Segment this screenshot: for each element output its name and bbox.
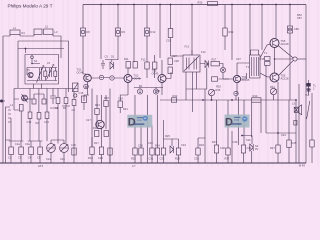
capacitor C19: [118, 101, 122, 108]
svg-text:R35: R35: [216, 85, 221, 89]
svg-text:LS: LS: [292, 102, 295, 106]
svg-text:C36: C36: [194, 157, 199, 161]
svg-text:F12: F12: [141, 58, 146, 62]
wire vertical x225: [224, 5, 226, 51]
capacitor pair above TS1: [101, 60, 105, 69]
TS4 transistor: [233, 75, 240, 82]
svg-text:R11: R11: [124, 57, 129, 61]
resistor R34 on base: [212, 77, 218, 81]
wire vertical x290: [289, 5, 291, 27]
svg-text:4 7: 4 7: [132, 164, 136, 167]
svg-text:C86: C86: [294, 27, 299, 31]
wire vertical x192: [191, 5, 193, 56]
resistor R15: [104, 101, 108, 107]
wires around TS1: [83, 58, 99, 95]
rail y100: [160, 99, 296, 101]
padder capacitor d: [38, 147, 43, 155]
svg-text:AC128: AC128: [281, 77, 289, 81]
tuning coil 1: [37, 65, 45, 82]
electrolytic small circle: [99, 75, 103, 79]
padder capacitor b: [19, 147, 24, 155]
resistor R6: [81, 28, 86, 36]
resistor row1 d: [72, 100, 76, 106]
resistor row2 a: [28, 112, 32, 119]
variable capacitor CV1: [47, 144, 56, 153]
wire vertical x118: [117, 5, 119, 61]
svg-text:C9: C9: [72, 108, 76, 112]
capacitor C35 circle: [220, 67, 225, 72]
svg-text:R14: R14: [93, 126, 98, 130]
wire left drop: [14, 89, 19, 111]
svg-text:R44: R44: [270, 85, 275, 89]
svg-text:OC45: OC45: [152, 72, 159, 76]
junction dot x170: [170, 4, 172, 6]
dial lamp: [307, 83, 311, 86]
svg-text:C12: C12: [27, 120, 32, 124]
detector diode: [205, 61, 209, 68]
svg-text:C38: C38: [220, 146, 225, 150]
svg-text:R6: R6: [87, 30, 91, 34]
svg-text:C32: C32: [148, 141, 153, 145]
padder capacitor c: [29, 147, 34, 155]
svg-text:R47: R47: [270, 146, 275, 150]
svg-text:C19: C19: [118, 97, 123, 101]
svg-text:R35: R35: [216, 88, 221, 92]
electrolytic right bottom: [310, 140, 314, 147]
tone pot: [270, 88, 276, 94]
svg-text:AC128: AC128: [281, 42, 289, 46]
svg-text:C17: C17: [86, 118, 91, 122]
jack circle 1: [137, 89, 142, 94]
wires TS4: [219, 63, 250, 95]
svg-text:C2a: C2a: [15, 142, 20, 146]
TS6 transistor: [270, 73, 279, 82]
svg-text:TL1: TL1: [305, 93, 310, 97]
svg-text:R9: R9: [122, 30, 126, 34]
junction dot x250: [249, 4, 251, 6]
resistor vol b: [139, 148, 143, 155]
meter circle M1: [84, 84, 89, 89]
wire vertical x134: [133, 5, 135, 63]
capacitor C20: [133, 62, 137, 69]
svg-text:R30: R30: [198, 1, 203, 5]
svg-text:R21: R21: [123, 107, 128, 111]
dial cord: [307, 101, 310, 119]
resistor row1 b: [56, 98, 60, 104]
resistor after diode: [211, 62, 220, 66]
svg-text:R45: R45: [260, 57, 265, 61]
svg-text:R24: R24: [155, 144, 160, 148]
resistor row2 c: [45, 112, 49, 119]
svg-text:C27: C27: [172, 54, 177, 58]
junction dot x290: [289, 4, 291, 6]
svg-text:C37: C37: [236, 57, 241, 61]
TS5 transistor: [270, 39, 279, 48]
svg-text:D1: D1: [111, 55, 115, 59]
volume pot: [208, 89, 214, 95]
svg-text:F13: F13: [185, 45, 190, 49]
resistor af f: [241, 145, 245, 153]
battery diode bottom: [250, 144, 253, 151]
svg-text:C31: C31: [149, 157, 154, 161]
resistor R33: [223, 28, 227, 36]
svg-text:D: D: [225, 117, 233, 129]
wire vertical x232: [231, 5, 233, 61]
junction dot x262: [261, 4, 263, 6]
svg-text:R31: R31: [212, 140, 217, 144]
junction dot x118: [117, 4, 119, 6]
svg-text:C1a: C1a: [46, 157, 51, 161]
svg-text:AC125: AC125: [242, 78, 250, 82]
wire vertical x83: [82, 5, 84, 59]
resistor R11: [126, 62, 130, 69]
headphone jack rail: [134, 87, 163, 89]
wires mid-left verticals: [30, 89, 74, 113]
resistor R9: [116, 28, 121, 36]
feedback node circle: [293, 57, 297, 61]
svg-text:C87: C87: [297, 16, 302, 20]
variable capacitor CV2: [60, 144, 69, 153]
resistor af e: [226, 148, 230, 155]
wire vertical x170: [171, 5, 178, 57]
wire top supply rail: [83, 4, 306, 6]
NTC resistor a: [265, 57, 271, 61]
svg-text:R27: R27: [212, 58, 217, 62]
svg-text:R16: R16: [88, 156, 93, 160]
wire vertical x105: [100, 5, 102, 60]
wires in shield: [27, 55, 57, 81]
resistor in shield b: [54, 71, 57, 77]
svg-text:C39: C39: [233, 140, 238, 144]
resistor af h: [287, 140, 291, 148]
svg-text:C28: C28: [174, 59, 179, 63]
coupling to output pair: [260, 44, 270, 77]
ferrite antenna coil: [6, 107, 11, 140]
svg-text:S1b: S1b: [246, 138, 251, 142]
svg-text:C45: C45: [292, 141, 297, 145]
watermark 2: [225, 115, 250, 129]
switch horizontals bottom: [266, 132, 296, 134]
svg-text:C2: C2: [8, 156, 12, 160]
diode af: [170, 146, 174, 153]
svg-text:C5: C5: [105, 55, 109, 59]
svg-text:R25: R25: [165, 134, 170, 138]
svg-text:C3a: C3a: [25, 142, 30, 146]
resistor af a: [161, 148, 165, 155]
oscillator transistor: [28, 72, 33, 77]
scattered value labels: [10, 30, 310, 147]
driver transistor TS3b: [96, 120, 104, 128]
resistor af g: [276, 145, 280, 153]
wire right frame vertical: [305, 5, 307, 164]
svg-text:R12: R12: [151, 30, 156, 34]
AF section verticals: [164, 65, 290, 163]
resistor vol a: [133, 148, 137, 155]
resistor under cluster a: [90, 147, 94, 155]
svg-text:R15: R15: [104, 96, 109, 100]
svg-text:B1: B1: [139, 84, 143, 88]
right verticals: [299, 84, 312, 163]
capacitor C86 top right: [288, 26, 293, 33]
svg-text:R32: R32: [173, 94, 178, 98]
mid-left rail: [14, 88, 78, 90]
svg-text:R29: R29: [199, 143, 204, 147]
wire vertical x276 to TS5: [275, 5, 277, 39]
wire shield lines: [18, 41, 69, 92]
driver transformer: [250, 55, 261, 78]
background banding: [2, 0, 318, 167]
resistor R30 on rail: [208, 2, 218, 6]
svg-text:C15: C15: [79, 91, 84, 95]
svg-text:D: D: [128, 117, 136, 129]
components left of IF transformer: [168, 58, 172, 65]
capacitor pair mid: [32, 99, 36, 104]
capacitor C16 bottom: [72, 148, 76, 155]
svg-text:F14: F14: [201, 50, 206, 54]
wires TS3: [162, 60, 171, 95]
small circle cap: [234, 91, 238, 95]
svg-text:C16: C16: [71, 143, 76, 147]
svg-text:C3: C3: [18, 156, 22, 160]
svg-text:C34: C34: [181, 143, 186, 147]
svg-text:R40: R40: [253, 94, 258, 98]
coil L1 top left: [10, 30, 20, 35]
wire vertical x250: [249, 5, 251, 56]
jack circle 2: [153, 89, 158, 94]
svg-text:R33: R33: [229, 30, 234, 34]
resistor R26: [168, 29, 173, 38]
wire vertical x160: [159, 5, 161, 59]
svg-text:C30: C30: [138, 144, 143, 148]
coil L2: [34, 29, 42, 35]
NTC resistor b: [265, 62, 271, 66]
TS3 transistor: [158, 75, 166, 83]
svg-text:C33: C33: [160, 157, 165, 161]
junction dot x105: [100, 4, 102, 6]
svg-text:S1: S1: [34, 59, 38, 63]
resistor af c: [196, 148, 200, 155]
diode D1: [110, 62, 114, 69]
resistor row2 b: [37, 113, 41, 120]
resistor R12: [145, 28, 150, 36]
cap small circle2: [110, 76, 114, 80]
svg-text:Philips Modelo A 29 T: Philips Modelo A 29 T: [8, 3, 53, 8]
resistor R13: [95, 109, 99, 115]
bottom tuning gang links: [9, 140, 43, 142]
capacitor C18 bottom: [108, 148, 112, 155]
TS1 transistor: [84, 74, 92, 82]
resistor under cluster b: [99, 147, 103, 155]
svg-text:M 49: M 49: [299, 164, 305, 168]
svg-text:R18: R18: [155, 89, 160, 93]
svg-text:C14: C14: [44, 120, 49, 124]
wire vertical x147: [146, 5, 148, 63]
resistor row1 a: [19, 105, 23, 112]
resistor in shield a: [44, 71, 47, 77]
junction dot x276: [275, 4, 277, 6]
electrolytic C15: [82, 96, 87, 103]
svg-text:R28: R28: [175, 157, 180, 161]
IF transformer F13: [183, 55, 200, 72]
TS2 transistor: [124, 75, 132, 83]
antenna terminal: [0, 100, 5, 102]
coupling components between TS2 TS3: [145, 62, 149, 69]
resistor vol d: [155, 148, 159, 155]
resistor on rail y100 right: [252, 98, 262, 102]
padder capacitor a: [9, 147, 14, 155]
wire bottom ground rail: [0, 162, 306, 164]
svg-text:R37: R37: [225, 157, 230, 161]
svg-text:R13: R13: [95, 103, 100, 107]
coil L3: [44, 29, 54, 35]
svg-text:R22: R22: [131, 157, 136, 161]
svg-text:9V: 9V: [255, 147, 258, 151]
junction dot x232: [231, 4, 233, 6]
wires TS2: [128, 68, 141, 95]
svg-text:C1b: C1b: [60, 157, 65, 161]
speaker: [294, 107, 298, 112]
junction dot x134: [133, 4, 135, 6]
resistor on rail y100 left: [171, 98, 176, 102]
tuner shield box: [25, 55, 59, 85]
svg-text:C4: C4: [28, 156, 32, 160]
tuning coil 2: [47, 64, 55, 79]
wire under coils: [3, 35, 61, 59]
junction dot x160: [159, 4, 161, 6]
svg-text:R1: R1: [22, 31, 26, 35]
svg-text:C5: C5: [37, 156, 41, 160]
svg-text:C24: C24: [98, 156, 103, 160]
svg-text:18 5: 18 5: [38, 164, 44, 167]
TS1 bottom components cluster: [84, 89, 110, 164]
svg-text:C43: C43: [281, 133, 286, 137]
junction dot x192: [191, 4, 193, 6]
wire y48: [18, 48, 64, 50]
resistor af d: [214, 145, 218, 153]
mixer transistor: [22, 95, 28, 101]
resistor row1 c: [64, 98, 68, 104]
svg-text:R17: R17: [94, 141, 99, 145]
svg-text:C29: C29: [166, 39, 171, 43]
resistor af b: [176, 148, 180, 155]
switch box M1: [73, 83, 79, 92]
resistor vol c: [150, 148, 154, 155]
watermark 1: [127, 115, 152, 129]
wire vertical x262: [261, 5, 263, 51]
volume section verticals: [135, 95, 158, 163]
